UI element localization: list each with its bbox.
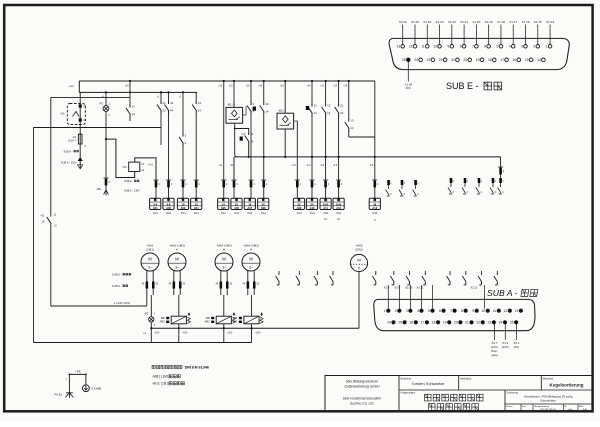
svg-text:13: 13 xyxy=(350,119,354,123)
wire box1 down xyxy=(235,123,238,157)
svg-text:UB+: UB+ xyxy=(97,188,102,191)
contact K1 changeover xyxy=(47,217,51,224)
SUB E pin25 wire xyxy=(407,62,409,82)
svg-text:SUB A -: SUB A - xyxy=(64,149,73,153)
floating contacts mid xyxy=(387,180,390,185)
svg-text:X1:18: X1:18 xyxy=(497,20,505,24)
svg-text:5: 5 xyxy=(428,309,430,313)
junction dots bus1 xyxy=(129,80,131,82)
svg-text:14: 14 xyxy=(387,321,391,325)
svg-text:X1:25: X1:25 xyxy=(411,20,419,24)
svg-text:17: 17 xyxy=(500,58,504,62)
svg-text:XG4: XG4 xyxy=(323,212,329,215)
svg-text:9: 9 xyxy=(447,45,449,49)
svg-text:A12: A12 xyxy=(336,206,341,210)
svg-text:15: 15 xyxy=(398,321,402,325)
svg-text:M: M xyxy=(222,257,226,262)
wire col 80 xyxy=(79,92,81,134)
svg-text:+15: +15 xyxy=(343,85,348,88)
svg-text:21: 21 xyxy=(340,104,344,108)
svg-text:XG4: XG4 xyxy=(166,212,172,215)
svg-text:+14: +14 xyxy=(258,85,263,88)
svg-text:23: 23 xyxy=(427,58,431,62)
svg-text:X1:24: X1:24 xyxy=(423,20,431,24)
svg-text:5: 5 xyxy=(497,45,499,49)
svg-text:A13: A13 xyxy=(372,206,377,210)
svg-text:20: 20 xyxy=(463,58,467,62)
svg-text:6: 6 xyxy=(439,309,441,313)
svg-text:44: 44 xyxy=(170,108,174,112)
svg-text:2-4: 2-4 xyxy=(153,202,157,206)
sensor box B1 (diamond) xyxy=(233,81,235,107)
svg-text:A05: A05 xyxy=(221,206,226,210)
svg-text:13: 13 xyxy=(396,45,400,49)
svg-text:14: 14 xyxy=(350,126,354,130)
DIN note xyxy=(152,365,155,368)
svg-text:+16: +16 xyxy=(218,85,223,88)
svg-text:M: M xyxy=(357,258,360,263)
svg-text:25: 25 xyxy=(510,321,514,325)
title block xyxy=(325,376,592,412)
svg-text:X2:11: X2:11 xyxy=(416,286,424,290)
svg-text:(24V): (24V) xyxy=(355,247,362,251)
svg-text:11: 11 xyxy=(421,45,425,49)
svg-text:Nr: Nr xyxy=(565,405,568,408)
svg-text:1: 1 xyxy=(384,309,386,313)
plug row group2 xyxy=(223,179,225,189)
earth electrode xyxy=(85,374,87,384)
svg-text:10-B: 10-B xyxy=(336,202,342,206)
SUB E connector outline xyxy=(389,38,569,69)
svg-text:-P2: -P2 xyxy=(144,312,149,316)
svg-text:8: 8 xyxy=(460,45,462,49)
svg-text:A10: A10 xyxy=(310,206,315,210)
svg-text:A02: A02 xyxy=(166,206,171,210)
svg-text:X1:14: X1:14 xyxy=(546,20,554,24)
svg-text:-B2 /1: -B2 /1 xyxy=(278,109,286,113)
svg-text:TuE: TuE xyxy=(323,200,328,203)
svg-text:-4.3: -4.3 xyxy=(306,164,311,167)
svg-text:12: 12 xyxy=(503,309,507,313)
svg-text:+PE: +PE xyxy=(75,370,81,374)
svg-text:A11: A11 xyxy=(323,206,328,210)
svg-text:24: 24 xyxy=(499,321,503,325)
svg-text:L:+24V (24V): L:+24V (24V) xyxy=(114,301,131,305)
wire col 106 lower xyxy=(105,139,107,177)
svg-text:21: 21 xyxy=(451,58,455,62)
contact K1 aux xyxy=(243,114,246,116)
svg-text:18: 18 xyxy=(488,58,492,62)
meter wire xyxy=(358,272,360,329)
svg-text:dku: dku xyxy=(568,408,573,412)
svg-text:X1:16: X1:16 xyxy=(522,20,530,24)
svg-text:X1:17: X1:17 xyxy=(509,20,517,24)
svg-text:Subminiatur: Subminiatur xyxy=(540,398,556,402)
svg-text:13: 13 xyxy=(265,102,269,106)
svg-text:X2:10: X2:10 xyxy=(405,286,413,290)
svg-text:4: 4 xyxy=(509,45,511,49)
svg-text:X1:22: X1:22 xyxy=(448,20,456,24)
svg-text:-41: -41 xyxy=(218,164,222,167)
svg-text:(0V): (0V) xyxy=(256,332,261,335)
svg-text:-MB: -MB xyxy=(233,316,238,320)
svg-text:16: 16 xyxy=(409,321,413,325)
terminal row group2 xyxy=(223,189,225,199)
valve V3 xyxy=(251,295,253,316)
svg-text:SUB E -: SUB E - xyxy=(446,81,479,91)
svg-text:XG4: XG4 xyxy=(153,212,159,215)
contact K2 21 xyxy=(160,92,162,100)
wire col 375 xyxy=(374,81,376,179)
bus mid 157 xyxy=(235,156,501,158)
svg-text:05.08.2014: 05.08.2014 xyxy=(540,408,555,412)
SUB A pins bottom row xyxy=(392,321,396,325)
terminal row group1 xyxy=(168,189,170,199)
contact col 264 xyxy=(263,81,265,102)
svg-text:XG4: XG4 xyxy=(309,212,315,215)
motor M2 xyxy=(168,253,186,271)
svg-text:9: 9 xyxy=(472,309,474,313)
svg-text:22: 22 xyxy=(439,58,443,62)
svg-text:SUB A - 230V: SUB A - 230V xyxy=(61,161,77,165)
contact col 349 xyxy=(348,81,350,118)
svg-text:SUB A -: SUB A - xyxy=(112,273,122,277)
svg-text:-MB: -MB xyxy=(160,316,165,320)
svg-text:X1:23: X1:23 xyxy=(436,20,444,24)
bus L+ second xyxy=(78,81,80,92)
svg-text:P: P xyxy=(358,267,360,271)
svg-text:SUB A -: SUB A - xyxy=(487,288,518,298)
svg-text:13: 13 xyxy=(515,309,519,313)
SUB E pins bottom row xyxy=(407,58,411,62)
svg-text:SUB A -: SUB A - xyxy=(112,284,122,288)
svg-text:-4.3: -4.3 xyxy=(291,164,296,167)
svg-text:X1:15: X1:15 xyxy=(534,20,542,24)
svg-text:M: M xyxy=(148,257,152,262)
svg-text:Datum: Datum xyxy=(506,405,513,408)
svg-text:3~: 3~ xyxy=(249,265,253,269)
svg-text:22: 22 xyxy=(163,108,167,112)
svg-text:Anlagenname: Anlagenname xyxy=(401,392,416,395)
svg-text:24: 24 xyxy=(414,58,418,62)
svg-text:(0V): (0V) xyxy=(406,86,411,90)
svg-text:-4.3: -4.3 xyxy=(333,164,338,167)
svg-text:X1:26: X1:26 xyxy=(399,20,407,24)
svg-text:XG4: XG4 xyxy=(261,212,267,215)
svg-text:13: 13 xyxy=(132,105,136,109)
svg-text:M: M xyxy=(175,257,179,262)
SUB A pin down wires xyxy=(494,324,496,340)
svg-text:19: 19 xyxy=(443,321,447,325)
svg-text:XG4: XG4 xyxy=(194,212,200,215)
lamp P1 xyxy=(105,92,107,105)
svg-text:A03: A03 xyxy=(181,206,186,210)
motor M1 wires lower xyxy=(150,295,152,317)
svg-text:-K1: -K1 xyxy=(241,132,246,136)
svg-text:E KABB: E KABB xyxy=(92,387,102,391)
svg-text:Ostbrandenburg GmbH: Ostbrandenburg GmbH xyxy=(344,384,380,388)
svg-text:2: 2 xyxy=(395,309,397,313)
SUB E pins top row xyxy=(401,45,405,49)
svg-text:+13: +13 xyxy=(320,85,325,88)
limit switches right group xyxy=(375,271,377,275)
svg-text:-K1: -K1 xyxy=(60,112,65,116)
svg-text:Bearbeiter: Bearbeiter xyxy=(401,377,412,380)
svg-text:19: 19 xyxy=(476,58,480,62)
svg-text:14: 14 xyxy=(314,111,318,115)
terminal row group3 xyxy=(296,189,298,199)
svg-text:XG4: XG4 xyxy=(234,212,240,215)
svg-text:3~: 3~ xyxy=(175,265,179,269)
svg-text:-MB1 (1M1): -MB1 (1M1) xyxy=(152,375,170,379)
wire bus157 right drop xyxy=(500,157,502,166)
svg-text:16: 16 xyxy=(513,58,517,62)
svg-text:+16: +16 xyxy=(245,85,250,88)
svg-text:18: 18 xyxy=(432,321,436,325)
svg-text:1: 1 xyxy=(546,45,548,49)
bus 0V return xyxy=(34,342,252,344)
svg-text:+4.3: +4.3 xyxy=(148,164,154,167)
motor M4 xyxy=(242,253,260,271)
svg-text:Zeichnung: Zeichnung xyxy=(507,391,519,394)
svg-text:+15: +15 xyxy=(280,85,285,88)
svg-text:(0V): (0V) xyxy=(183,332,188,335)
svg-text:A09: A09 xyxy=(297,206,302,210)
svg-text:7: 7 xyxy=(450,309,452,313)
svg-text:XG4: XG4 xyxy=(296,212,302,215)
svg-text:Torsten Schwartze: Torsten Schwartze xyxy=(412,381,446,386)
relay coil K2 xyxy=(129,162,140,171)
svg-text:Suzhou Co. Ltd.: Suzhou Co. Ltd. xyxy=(350,401,374,405)
svg-text:A08: A08 xyxy=(261,206,266,210)
svg-text:21: 21 xyxy=(163,101,167,105)
SUB A connector outline xyxy=(374,299,535,330)
contact col 339 xyxy=(338,81,340,103)
svg-text:8: 8 xyxy=(461,309,463,313)
wire col 224 xyxy=(223,81,225,179)
svg-text:TuE: TuE xyxy=(336,200,341,203)
svg-text:X: X xyxy=(374,218,376,222)
svg-text:4M2: 4M2 xyxy=(205,319,211,323)
svg-text:-4.3: -4.3 xyxy=(369,164,374,167)
svg-text:+12: +12 xyxy=(333,85,338,88)
svg-text:-B1 /1: -B1 /1 xyxy=(227,103,235,107)
svg-text:10: 10 xyxy=(481,309,485,313)
contact B2 xyxy=(182,133,184,137)
wire left vertical K1 xyxy=(50,97,52,216)
svg-text:X2:12: X2:12 xyxy=(470,286,478,290)
plug arrow col 80 xyxy=(79,155,81,169)
contact B1 xyxy=(129,81,131,104)
svg-text:A01: A01 xyxy=(153,206,158,210)
svg-text:Kugelsortierung: Kugelsortierung xyxy=(550,383,584,388)
svg-text:X2:9: X2:9 xyxy=(394,286,400,290)
svg-text:(0V): (0V) xyxy=(514,345,519,349)
junction dots bus2 xyxy=(105,91,107,93)
svg-text:M: M xyxy=(249,257,253,262)
svg-text:SUB A - 230V: SUB A - 230V xyxy=(124,189,140,193)
svg-text:4M2: 4M2 xyxy=(232,319,238,323)
svg-text:12: 12 xyxy=(409,45,413,49)
svg-text:2: 2 xyxy=(533,45,535,49)
svg-text:3: 3 xyxy=(406,309,408,313)
svg-text:gang: gang xyxy=(491,353,498,357)
svg-text:-P1: -P1 xyxy=(99,102,104,106)
svg-text:23: 23 xyxy=(487,321,491,325)
svg-text:13: 13 xyxy=(198,101,202,105)
relay K1 dashed box xyxy=(67,104,85,125)
contact S1 pushbutton xyxy=(250,81,252,102)
svg-text:25: 25 xyxy=(402,58,406,62)
svg-text:20: 20 xyxy=(454,321,458,325)
svg-text:7: 7 xyxy=(472,45,474,49)
wire enclosure top xyxy=(51,96,130,98)
contact K3 43 xyxy=(168,92,170,100)
valve V1 xyxy=(178,295,180,316)
SUB A pin up wires xyxy=(387,285,389,309)
sensor box B2 (diamond) xyxy=(284,81,286,113)
svg-text:SUB A -: SUB A - xyxy=(124,179,133,183)
svg-text:+14: +14 xyxy=(124,85,129,88)
svg-text:XG4: XG4 xyxy=(221,212,227,215)
svg-text:+13: +13 xyxy=(228,85,233,88)
wire 24V path xyxy=(51,305,147,307)
svg-text:14: 14 xyxy=(132,112,136,116)
svg-text:Werkstück: Werkstück xyxy=(460,377,472,380)
svg-text:14: 14 xyxy=(537,58,541,62)
motor wires and plugs xyxy=(146,270,148,295)
svg-text:13: 13 xyxy=(314,104,318,108)
chassis ground xyxy=(65,393,73,398)
svg-text:X1:20: X1:20 xyxy=(472,20,480,24)
fuse F1 xyxy=(78,134,82,144)
svg-text:(1M1): (1M1) xyxy=(146,247,154,251)
svg-text:4M2: 4M2 xyxy=(160,319,166,323)
svg-text:14: 14 xyxy=(198,108,202,112)
svg-text:-4.3: -4.3 xyxy=(320,164,325,167)
svg-text:13: 13 xyxy=(327,104,331,108)
plug row group3 xyxy=(296,179,298,189)
svg-text:21: 21 xyxy=(465,321,469,325)
svg-text:(0V): (0V) xyxy=(155,332,160,335)
svg-text:A04: A04 xyxy=(194,206,199,210)
svg-text:PA-E1: PA-E1 xyxy=(54,393,62,397)
bus 0V lower xyxy=(151,327,359,329)
wire box2 right xyxy=(294,120,298,122)
svg-text:-K2: -K2 xyxy=(122,165,127,169)
SUB A pins top row xyxy=(387,309,391,313)
wire 0V left drop xyxy=(34,127,162,129)
svg-text:-MB: -MB xyxy=(205,316,210,320)
svg-text:bbw Bildungszentrum: bbw Bildungszentrum xyxy=(346,380,379,384)
svg-text:0.5A-T: 0.5A-T xyxy=(68,139,77,143)
svg-text:+24: +24 xyxy=(69,84,74,88)
contact col 312 xyxy=(311,81,313,103)
svg-text:A07: A07 xyxy=(247,206,252,210)
svg-text:(24V): (24V) xyxy=(502,345,509,349)
svg-text:X2:8: X2:8 xyxy=(384,286,390,290)
svg-text:bbw vocational education: bbw vocational education xyxy=(343,397,381,401)
svg-text:3~: 3~ xyxy=(222,265,226,269)
svg-text:3~: 3~ xyxy=(148,265,152,269)
svg-text:4: 4 xyxy=(417,309,419,313)
valve V2 xyxy=(223,295,225,316)
svg-text:XG4: XG4 xyxy=(372,212,378,215)
plug row group1 xyxy=(168,179,170,189)
svg-text:-K1: -K1 xyxy=(40,214,45,218)
svg-text:6-8: 6-8 xyxy=(167,202,171,206)
svg-text:10-B: 10-B xyxy=(323,202,329,206)
motor M3 xyxy=(215,253,233,271)
svg-text:XG4: XG4 xyxy=(180,212,186,215)
svg-text:X1:19: X1:19 xyxy=(485,20,493,24)
motor M1 xyxy=(141,253,159,271)
svg-text:11: 11 xyxy=(493,309,497,313)
svg-text:3: 3 xyxy=(521,45,523,49)
svg-text:-42: -42 xyxy=(229,164,233,167)
svg-text:43: 43 xyxy=(170,101,174,105)
PE wire left xyxy=(68,374,70,392)
wire branch to K2 xyxy=(106,139,135,177)
svg-text:XG4: XG4 xyxy=(247,212,253,215)
wire col 183 xyxy=(182,92,184,133)
svg-text:XG4: XG4 xyxy=(336,212,342,215)
svg-text:-BG1 (1B1): -BG1 (1B1) xyxy=(152,382,169,386)
svg-text:17: 17 xyxy=(421,321,425,325)
svg-text:14: 14 xyxy=(327,111,331,115)
contact col 326 xyxy=(325,81,327,103)
svg-text:22: 22 xyxy=(476,321,480,325)
svg-text:10: 10 xyxy=(433,45,437,49)
svg-text:(0V): (0V) xyxy=(228,332,233,335)
floating contacts right xyxy=(450,178,453,183)
svg-text:22: 22 xyxy=(340,111,344,115)
wire K2 to terminal xyxy=(135,158,156,179)
svg-text:6: 6 xyxy=(484,45,486,49)
svg-text:6/6: 6/6 xyxy=(583,408,588,412)
svg-text:X1:21: X1:21 xyxy=(460,20,468,24)
svg-text:A06: A06 xyxy=(234,206,239,210)
contact col 196 xyxy=(195,92,197,100)
bus L+ top xyxy=(79,80,375,82)
svg-text:DIN EN 61346: DIN EN 61346 xyxy=(185,365,209,369)
svg-text:Maschine: Maschine xyxy=(543,377,554,380)
wire L col 349-375 xyxy=(349,136,375,138)
svg-text:+14: +14 xyxy=(306,85,311,88)
svg-text:15: 15 xyxy=(525,58,529,62)
limit switches left group xyxy=(278,271,280,275)
svg-text:14: 14 xyxy=(265,109,269,113)
